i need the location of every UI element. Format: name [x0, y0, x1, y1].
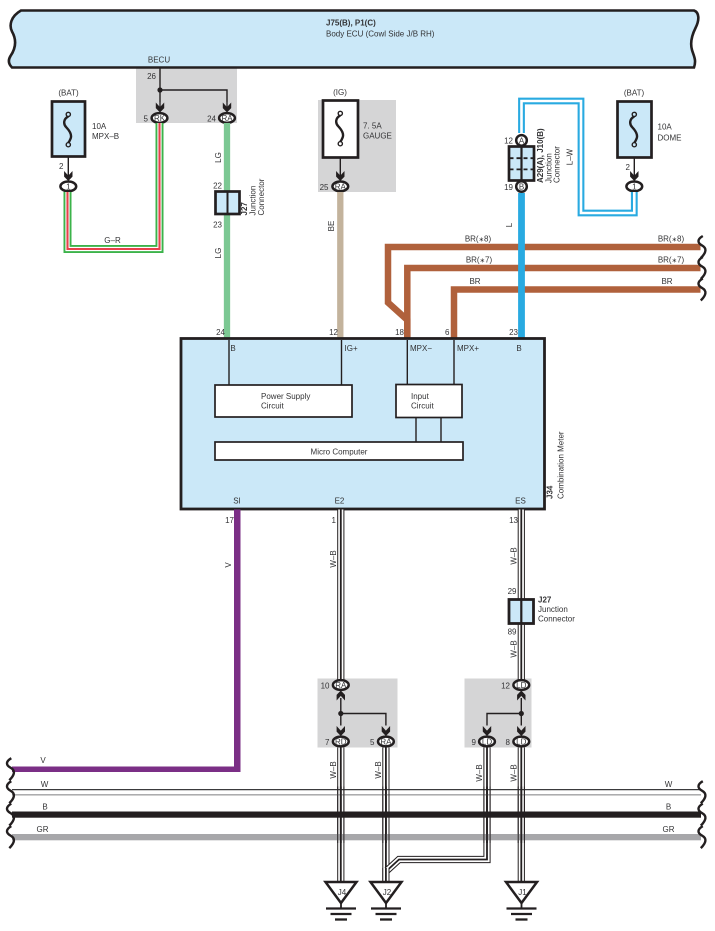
pin 23 label [213, 221, 222, 230]
pin 18 label [395, 328, 404, 337]
svg-text:1: 1 [66, 183, 71, 192]
bus W [12, 790, 701, 795]
wire meter internal IG+ to power supply [341, 340, 343, 385]
arrow into terminal 1 (dome) [630, 171, 638, 181]
svg-text:LD: LD [482, 738, 492, 747]
svg-text:W: W [41, 780, 49, 789]
svg-text:BE: BE [327, 221, 336, 232]
micro computer box [215, 442, 463, 460]
svg-text:12: 12 [504, 137, 513, 146]
continuation squiggle B left [7, 804, 14, 826]
svg-text:J4: J4 [338, 888, 347, 897]
arrow up from branch to 10 RA [337, 691, 345, 701]
svg-text:Junction: Junction [538, 605, 568, 614]
continuation squiggle BR [698, 279, 705, 301]
continuation squiggle W left [7, 781, 14, 803]
svg-text:19: 19 [504, 183, 513, 192]
continuation squiggle BR(*7) [698, 257, 705, 279]
pin 12 label [329, 328, 338, 337]
pin 6 label [445, 328, 450, 337]
svg-text:18: 18 [395, 328, 404, 337]
svg-text:J1: J1 [518, 888, 527, 897]
svg-text:LD: LD [516, 738, 526, 747]
LG label upper [214, 152, 223, 163]
V bus label [40, 756, 46, 765]
svg-text:BR(∗8): BR(∗8) [465, 235, 492, 244]
BR label right [661, 277, 672, 286]
svg-text:29: 29 [508, 587, 517, 596]
svg-text:ES: ES [515, 497, 526, 506]
W-B label (E2) [329, 550, 338, 567]
G-R label [104, 236, 121, 245]
svg-text:10: 10 [321, 682, 330, 691]
LG label lower [214, 248, 223, 259]
svg-text:GAUGE: GAUGE [363, 132, 392, 141]
node BECU label [148, 56, 170, 65]
svg-text:5: 5 [144, 115, 149, 124]
wire fuse to terminal 1 (dome) [633, 157, 635, 176]
wire fuse to terminal 1 [67, 157, 69, 176]
svg-text:LD: LD [516, 681, 526, 690]
arrow into 5 RA [382, 726, 390, 736]
svg-text:13: 13 [509, 516, 518, 525]
combination meter box J34 [181, 339, 545, 510]
svg-text:SI: SI [233, 497, 241, 506]
svg-text:Circuit: Circuit [261, 402, 284, 411]
svg-text:B: B [666, 803, 671, 812]
arrow into terminal 1 [64, 171, 72, 181]
L-W label [566, 148, 575, 165]
ground J4 [326, 882, 357, 920]
svg-text:1: 1 [632, 183, 637, 192]
BR(*7) label left [466, 256, 493, 265]
arrow into 9 LD [483, 726, 491, 736]
terminal 25 RA [320, 182, 349, 193]
wire W-B E2 to 10 RA [337, 510, 344, 680]
svg-text:W–B: W–B [329, 761, 338, 778]
wire W-B J2 merge segment [382, 868, 389, 882]
J34 designator (rotated) [546, 485, 555, 499]
svg-text:RA: RA [221, 114, 233, 123]
svg-text:BR(∗7): BR(∗7) [466, 256, 493, 265]
svg-text:7: 7 [325, 738, 330, 747]
terminal 24 RA [207, 113, 235, 123]
svg-text:LG: LG [214, 248, 223, 259]
junction dot right relay [519, 711, 524, 716]
svg-text:MPX+: MPX+ [457, 344, 479, 353]
arrow into terminal 25 RA [336, 171, 344, 181]
junction connector J27 (left) [216, 178, 267, 215]
arrow into terminal 24 RA [223, 102, 231, 113]
wire fuse to terminal 25 RA [339, 158, 341, 176]
wire BR(*7) [407, 268, 700, 339]
svg-text:W–B: W–B [329, 550, 338, 567]
bus B [12, 812, 701, 818]
gray box IG fuse region [318, 100, 396, 192]
svg-text:L–W: L–W [566, 148, 575, 165]
continuation squiggle BR(*8) [698, 236, 705, 258]
junction dot BECU branch [157, 87, 162, 92]
wire BR [454, 290, 701, 340]
svg-text:12: 12 [501, 682, 510, 691]
W bus label right [665, 780, 673, 789]
pin 2 label [59, 162, 64, 171]
svg-text:RA: RA [335, 183, 347, 192]
svg-text:A: A [519, 137, 525, 146]
arrow into terminal 5 RK [156, 102, 164, 113]
gray box relay right (12LD/9LD/8LD) [465, 679, 532, 748]
svg-text:V: V [224, 562, 233, 568]
svg-text:5: 5 [370, 738, 375, 747]
svg-text:Micro Computer: Micro Computer [311, 448, 368, 457]
wire W-B 5 RA to ground J2 [382, 748, 389, 883]
svg-text:BR: BR [469, 277, 480, 286]
meter pin labels bottom [233, 497, 526, 506]
svg-text:B: B [516, 344, 521, 353]
svg-text:DOME: DOME [658, 134, 682, 143]
svg-text:J2: J2 [383, 888, 392, 897]
BE label [327, 221, 336, 232]
svg-text:GR: GR [663, 825, 675, 834]
continuation squiggle GR right [698, 826, 705, 848]
input circuit box [396, 385, 462, 418]
terminal 10 RA [321, 680, 349, 690]
svg-text:W–B: W–B [510, 640, 519, 657]
svg-text:LG: LG [214, 152, 223, 163]
W-B label (J1 wire) [510, 764, 519, 781]
svg-text:89: 89 [508, 628, 517, 637]
pin 2 label (dome) [626, 163, 631, 172]
svg-text:L: L [505, 222, 514, 227]
svg-text:BECU: BECU [148, 56, 170, 65]
terminal B (J10) [504, 181, 527, 192]
wire branch right relay [487, 698, 521, 726]
svg-text:17: 17 [225, 516, 234, 525]
W bus label left [41, 780, 49, 789]
bus GR [12, 834, 701, 840]
svg-text:(IG): (IG) [333, 88, 347, 97]
svg-text:6: 6 [445, 328, 450, 337]
svg-text:RA: RA [380, 738, 392, 747]
BR(*7) label right [658, 256, 685, 265]
junction connector J27 (right) [509, 596, 575, 624]
fuse 10A MPX-B (BAT) [52, 89, 119, 157]
BR label left [469, 277, 480, 286]
svg-text:2: 2 [59, 162, 64, 171]
svg-text:RK: RK [154, 114, 166, 123]
svg-text:Connector: Connector [553, 146, 562, 183]
BR(*8) label right [658, 235, 685, 244]
svg-text:V: V [40, 756, 46, 765]
continuation squiggle B right [698, 804, 705, 826]
wire G-R [68, 123, 160, 249]
terminal 5 RK [144, 113, 168, 123]
pin 17 label [225, 516, 234, 525]
W-B label (9 LD wire) [475, 764, 484, 781]
B bus label left [42, 803, 47, 812]
svg-text:24: 24 [207, 115, 216, 124]
pin 22 label [213, 182, 222, 191]
svg-text:Connector: Connector [257, 178, 266, 215]
L label [505, 222, 514, 227]
wire branch left relay [341, 698, 386, 726]
continuation squiggle W right [698, 781, 705, 803]
svg-text:B: B [42, 803, 47, 812]
svg-text:10A: 10A [658, 123, 673, 132]
svg-text:W–B: W–B [510, 764, 519, 781]
pin 24 label (meter B) [216, 328, 225, 337]
Combination Meter label (rotated) [557, 431, 566, 499]
wire meter internal B to power supply [228, 340, 230, 385]
banner J75(B) P1(C) Body ECU [9, 11, 698, 68]
V label rotated [224, 562, 233, 568]
svg-text:(BAT): (BAT) [624, 89, 645, 98]
svg-text:J75(B), P1(C): J75(B), P1(C) [326, 19, 376, 28]
wire V vertical (SI) [234, 510, 241, 773]
svg-text:Power Supply: Power Supply [261, 392, 310, 401]
GR bus label right [663, 825, 675, 834]
wire L-W [522, 101, 635, 213]
svg-text:B: B [519, 183, 524, 192]
svg-text:7. 5A: 7. 5A [363, 122, 382, 131]
wire LG (24 RA to meter pin B) [224, 123, 230, 339]
wire input circuit to micro computer (left) [415, 418, 417, 443]
terminal 1 (dome) [626, 182, 642, 192]
svg-text:IG+: IG+ [345, 344, 358, 353]
svg-text:MPX−: MPX− [410, 344, 432, 353]
terminal A (A29) [504, 135, 527, 146]
svg-text:BR(∗7): BR(∗7) [658, 256, 685, 265]
svg-text:MPX–B: MPX–B [92, 132, 119, 141]
svg-text:9: 9 [472, 738, 477, 747]
svg-text:W–B: W–B [475, 764, 484, 781]
svg-text:(BAT): (BAT) [58, 89, 79, 98]
W-B label (ES upper) [510, 547, 519, 564]
power supply circuit box [215, 385, 352, 417]
svg-text:Circuit: Circuit [411, 402, 434, 411]
fuse 10A DOME (BAT) [618, 89, 682, 158]
svg-text:Connector: Connector [538, 615, 575, 624]
arrow up from branch to 12 LD [517, 691, 525, 701]
svg-text:23: 23 [213, 221, 222, 230]
pin 23 label [509, 328, 518, 337]
svg-text:W: W [665, 780, 673, 789]
wire W-B ES down through J27 [518, 510, 525, 680]
pin 26 label [147, 72, 156, 81]
svg-text:Input: Input [411, 392, 430, 401]
wire L (terminal B to meter pin B) [518, 193, 525, 339]
svg-text:1: 1 [332, 516, 337, 525]
terminal 8 LD [506, 737, 530, 747]
meter pin labels top [230, 344, 521, 353]
svg-text:GR: GR [37, 825, 49, 834]
svg-text:BR(∗8): BR(∗8) [658, 235, 685, 244]
B bus label right [666, 803, 671, 812]
continuation squiggle V left [7, 758, 14, 780]
svg-text:BR: BR [661, 277, 672, 286]
wire BECU pin 26 branch [160, 67, 227, 102]
svg-text:Body ECU (Cowl Side J/B RH): Body ECU (Cowl Side J/B RH) [326, 30, 435, 39]
terminal 9 LD [472, 737, 495, 747]
terminal 12 LD [501, 680, 529, 690]
pin 89 label [508, 628, 517, 637]
arrow into 8 LD [517, 726, 525, 736]
svg-text:22: 22 [213, 182, 222, 191]
wire meter internal MPX+ to input circuit [453, 340, 455, 385]
wire crossing overlays (W-B over buses) [338, 787, 525, 844]
svg-text:G–R: G–R [104, 236, 121, 245]
svg-text:W–B: W–B [510, 547, 519, 564]
wire W-B 9 LD jog to ground J2 [386, 748, 487, 872]
wire V bus horizontal [12, 767, 241, 773]
continuation squiggle GR left [7, 826, 14, 848]
svg-text:26: 26 [147, 72, 156, 81]
svg-text:RD: RD [335, 738, 347, 747]
svg-text:2: 2 [626, 163, 631, 172]
arrow into 7 RD [337, 726, 345, 736]
svg-text:12: 12 [329, 328, 338, 337]
svg-text:23: 23 [509, 328, 518, 337]
svg-text:J34: J34 [546, 485, 555, 499]
svg-text:8: 8 [506, 738, 511, 747]
svg-text:E2: E2 [335, 497, 345, 506]
svg-text:W–B: W–B [374, 761, 383, 778]
pin 13 label [509, 516, 518, 525]
gray box BECU connector region [136, 67, 237, 123]
W-B label (ES lower) [510, 640, 519, 657]
wire W-B 8 LD to ground J1 [518, 748, 525, 883]
terminal 1 (MPX-B) [60, 182, 76, 192]
ground J1 [506, 882, 537, 920]
W-B label (J4 wire) [329, 761, 338, 778]
svg-text:25: 25 [320, 183, 329, 192]
svg-text:10A: 10A [92, 122, 107, 131]
W-B label (J2 wire) [374, 761, 383, 778]
ground J2 [371, 882, 402, 920]
junction connector A29(A) J10(B) [509, 128, 562, 183]
wire BE (25 RA to meter IG+) [337, 192, 343, 339]
pin 29 label [508, 587, 517, 596]
svg-text:RA: RA [335, 681, 347, 690]
BR(*8) label left [465, 235, 492, 244]
svg-text:24: 24 [216, 328, 225, 337]
fuse 7.5A GAUGE (IG) [323, 88, 392, 158]
wire BR(*8) [388, 247, 701, 339]
svg-text:B: B [230, 344, 235, 353]
terminal 5 RA [370, 737, 394, 747]
wire input circuit to micro computer (right) [440, 418, 442, 443]
terminal 7 RD [325, 737, 349, 747]
svg-text:J27: J27 [538, 596, 552, 605]
pin 1 label [332, 516, 337, 525]
svg-text:Combination Meter: Combination Meter [557, 431, 566, 499]
gray box relay left (10RA/7RD/5RA) [318, 679, 398, 748]
wire W-B 7 RD to ground J4 [337, 748, 344, 883]
GR bus label left [37, 825, 49, 834]
junction dot left relay [338, 711, 343, 716]
wire meter internal MPX- to input circuit [406, 340, 408, 385]
